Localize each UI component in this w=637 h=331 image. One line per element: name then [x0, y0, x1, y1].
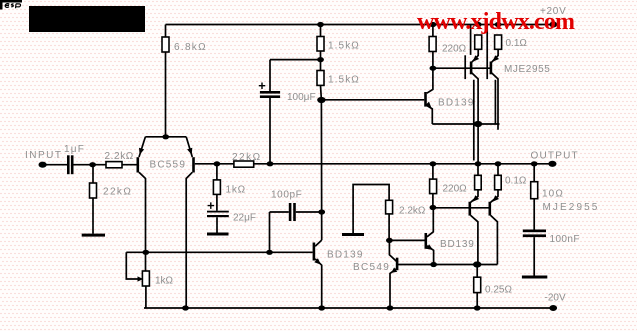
- wire 220R upper column: [432, 25, 434, 69]
- node top rail 220R: [430, 22, 437, 27]
- wire BC549 emitter: [390, 269, 396, 308]
- ground 100nF: [522, 276, 547, 279]
- wire rail stub right MJE: [486, 25, 488, 80]
- resistor 10R zobel: [531, 182, 538, 199]
- arrow BD139 lower right: [426, 244, 433, 250]
- resistor 0.1R UL: [475, 35, 482, 49]
- svg-text:2.2kΩ: 2.2kΩ: [399, 206, 426, 217]
- arrow MJE LL: [473, 195, 480, 202]
- wire lower 0.1R stubs left: [471, 164, 478, 203]
- node 100pF bias: [266, 250, 273, 255]
- transistor Q1 BC559 left bar: [137, 157, 140, 172]
- wire BC559 emitter link: [145, 136, 186, 138]
- node -20V terminal: [549, 305, 557, 311]
- node bottom rail BD139 LL: [318, 305, 325, 310]
- arrow BD139 upper: [425, 102, 432, 109]
- transistor Q4 BD139 upper bar: [424, 92, 427, 107]
- svg-text:BD139: BD139: [327, 250, 364, 261]
- svg-text:BC559: BC559: [150, 160, 187, 171]
- wire twin line left MJE: [464, 55, 466, 79]
- svg-text:1μF: 1μF: [64, 144, 85, 155]
- svg-text:0.25Ω: 0.25Ω: [485, 285, 512, 296]
- node feedback junction: [214, 161, 221, 166]
- arrow BD139 lower left: [314, 258, 321, 264]
- svg-text:1.5kΩ: 1.5kΩ: [328, 75, 360, 86]
- wire MJE UR emitter: [492, 49, 498, 62]
- node bottom rail BC559 collector: [182, 305, 189, 310]
- resistor 0.1R LR: [495, 175, 502, 190]
- node bus 0.25R: [473, 261, 481, 267]
- wire lower bus y264: [398, 264, 498, 266]
- svg-text:BD139: BD139: [440, 239, 475, 250]
- svg-text:100nF: 100nF: [550, 234, 580, 245]
- resistor 220R lower: [430, 179, 437, 194]
- wire MJE LL collector: [471, 215, 478, 264]
- node BC559 emitters: [162, 134, 169, 139]
- resistor 2.2k input: [106, 162, 122, 168]
- resistor 220R upper: [429, 37, 436, 52]
- resistor 22k feedback: [234, 161, 254, 167]
- resistor 1.5k lower: [317, 71, 324, 86]
- wire MJE UL collector: [472, 73, 479, 164]
- wire BD139 Lr emitter: [427, 246, 434, 265]
- transistor Q10 BD139 lower bar: [424, 233, 427, 249]
- wire drop 495.4: [494, 80, 496, 124]
- transistor Q3 BD139 left bar: [313, 243, 316, 261]
- svg-text:0.1Ω: 0.1Ω: [505, 176, 527, 187]
- svg-text:MJE2955: MJE2955: [504, 64, 550, 75]
- transistor Q5 MJE2955 UL bar: [470, 62, 473, 75]
- resistor 1.5k upper: [317, 37, 324, 52]
- wire 2.2k lower bracket: [353, 185, 389, 234]
- node top rail 1.5k: [317, 22, 324, 27]
- ground 2.2k lower: [342, 233, 364, 236]
- svg-text:-20V: -20V: [545, 293, 566, 304]
- wire MJE LR collector: [491, 215, 498, 264]
- wire lower 0.1R stubs right: [491, 164, 498, 203]
- node bus BD139 emitter: [430, 262, 437, 267]
- resistor 0.1R UR: [495, 35, 502, 49]
- svg-text:220Ω: 220Ω: [443, 184, 468, 195]
- wire input row: [43, 164, 137, 166]
- resistor 0.1R LL: [475, 175, 482, 190]
- capacitor 22uF electrolytic: [207, 211, 229, 218]
- svg-text:100pF: 100pF: [271, 190, 302, 201]
- node 100uF output: [267, 161, 274, 166]
- svg-text:0.1Ω: 0.1Ω: [506, 38, 528, 49]
- svg-text:OUTPUT: OUTPUT: [531, 151, 579, 162]
- wire 100uF top link: [270, 60, 321, 91]
- svg-text:6.8kΩ: 6.8kΩ: [174, 42, 207, 53]
- resistor 22k input shunt: [90, 183, 97, 198]
- wire 22k shunt column: [92, 165, 94, 234]
- wire BD139 LL emitter: [315, 259, 322, 308]
- wire output rail: [195, 163, 553, 165]
- svg-text:1.5kΩ: 1.5kΩ: [328, 40, 360, 51]
- transistor Q2 BC559 right bar: [192, 157, 195, 172]
- capacitor 1uF plates: [67, 155, 74, 174]
- wire MJE upper base bus: [433, 67, 491, 69]
- svg-text:1kΩ: 1kΩ: [155, 276, 174, 287]
- wire BC559 left collector: [139, 172, 146, 271]
- svg-text:22kΩ: 22kΩ: [103, 187, 132, 198]
- wire 0.25R column: [476, 265, 478, 309]
- svg-text:10Ω: 10Ω: [542, 189, 564, 200]
- ground input: [82, 234, 105, 237]
- arrows (emitters and trimmer): [138, 55, 500, 281]
- svg-text:INPUT: INPUT: [25, 150, 63, 161]
- wire BC559 left emitter diagonal: [139, 137, 145, 157]
- node trimmer top: [142, 250, 149, 255]
- wire trimmer wiper: [126, 252, 138, 279]
- arrow MJE UR: [493, 55, 500, 62]
- arrow MJE LR: [493, 195, 500, 202]
- esp logo: [0, 0, 22, 10]
- node zobel top: [531, 161, 538, 166]
- node bottom rail BC549: [387, 305, 394, 310]
- capacitor 100uF electrolytic: [260, 91, 280, 98]
- resistor 2.2k lower: [386, 200, 393, 214]
- wire MJE lower base line: [433, 207, 489, 209]
- wire MJE UR collector: [491, 73, 498, 130]
- transistor Q9 BC549 bar: [396, 258, 399, 271]
- node output rail 0.1R right: [495, 161, 502, 166]
- resistor 1k: [213, 180, 220, 195]
- svg-text:220Ω: 220Ω: [442, 44, 467, 55]
- wire 6.8k column: [165, 25, 167, 137]
- svg-text:BC549: BC549: [353, 262, 390, 273]
- resistor 6.8k: [162, 37, 169, 52]
- wire 220R lower column: [432, 164, 434, 208]
- wire BD139 upper base: [321, 99, 424, 101]
- node dots: [39, 22, 558, 312]
- svg-text:MJE2955: MJE2955: [543, 202, 600, 213]
- capacitor 100nF plates: [523, 230, 546, 238]
- wire BD139 upper emitter: [427, 106, 433, 125]
- svg-text:BD139: BD139: [438, 98, 475, 109]
- svg-text:22μF: 22μF: [233, 213, 256, 224]
- node 100pF column: [318, 209, 325, 214]
- node 220R lower bottom: [430, 205, 437, 210]
- node BD139 base junction: [317, 97, 325, 103]
- node 220R lower top: [430, 161, 437, 166]
- resistor 0.25R: [474, 277, 481, 292]
- transistor Q7 MJE2955 LL bar: [468, 202, 471, 216]
- svg-text:1kΩ: 1kΩ: [226, 185, 246, 196]
- node input terminal: [39, 162, 47, 168]
- wire BC559 right collector: [186, 172, 192, 308]
- wire trimmer bottom: [145, 286, 147, 308]
- wire zobel column: [533, 164, 535, 276]
- resistors white boxes: [90, 35, 538, 293]
- ground 22uF: [207, 233, 229, 236]
- node 1.5k midpoint: [317, 57, 324, 62]
- wire bias line y252: [126, 251, 312, 253]
- wire 100pF links: [270, 212, 322, 252]
- node emitter bus: [474, 121, 482, 127]
- wire 1.5k chain column: [321, 25, 322, 241]
- transistor Q6 MJE2955 UR bar: [490, 62, 493, 75]
- arrow BC559 left: [139, 148, 144, 155]
- node input cap junction: [89, 162, 96, 167]
- arrow trimmer wiper: [138, 276, 144, 281]
- black censor box: [29, 6, 145, 32]
- wire drop 473.8: [473, 80, 475, 161]
- wire bottom rail: [144, 307, 553, 309]
- wire 1k column: [216, 164, 218, 233]
- resistor 1k trimmer: [142, 271, 149, 286]
- wire 100uF bottom: [269, 98, 271, 164]
- transistor bars: [138, 62, 491, 271]
- transistor Q8 MJE2955 LR bar: [488, 202, 491, 216]
- svg-text:22kΩ: 22kΩ: [232, 152, 262, 163]
- wire upper emitter bus: [432, 123, 499, 125]
- wire BD139 LL collector diag: [315, 240, 322, 246]
- wire BD139 Lr collector: [427, 208, 433, 237]
- plus sign 22uF: [208, 202, 215, 209]
- capacitor 100pF plates: [289, 203, 296, 221]
- wire BD139 upper collector: [427, 68, 433, 93]
- wire BD139 Lr base: [389, 239, 424, 241]
- wire rail stub left MJE: [470, 25, 472, 55]
- arrow BC559 right: [187, 148, 192, 155]
- wire top rail +20V: [166, 24, 554, 26]
- node bottom rail 0.25R: [474, 305, 481, 310]
- svg-text:2.2kΩ: 2.2kΩ: [105, 151, 134, 162]
- node +20V terminal: [549, 22, 557, 28]
- svg-text:100μF: 100μF: [287, 92, 316, 103]
- wire 2.2k lower bottom and BC549 collector: [389, 214, 396, 261]
- node BC549 collector: [386, 238, 393, 243]
- wire MJE UL emitter: [472, 49, 478, 62]
- svg-text:www.xjdwx.com: www.xjdwx.com: [417, 9, 575, 35]
- plus sign 100uF: [259, 83, 266, 90]
- node output terminal: [548, 161, 556, 167]
- node MJE base 220R: [430, 66, 437, 71]
- wire BC559 right emitter diagonal: [186, 137, 192, 157]
- arrow MJE UL: [473, 55, 480, 62]
- node top rail 0.1R left: [475, 22, 482, 27]
- arrow BC549: [391, 267, 397, 273]
- node top rail 0.1R right: [495, 22, 502, 27]
- node output rail 0.1R left: [475, 161, 482, 166]
